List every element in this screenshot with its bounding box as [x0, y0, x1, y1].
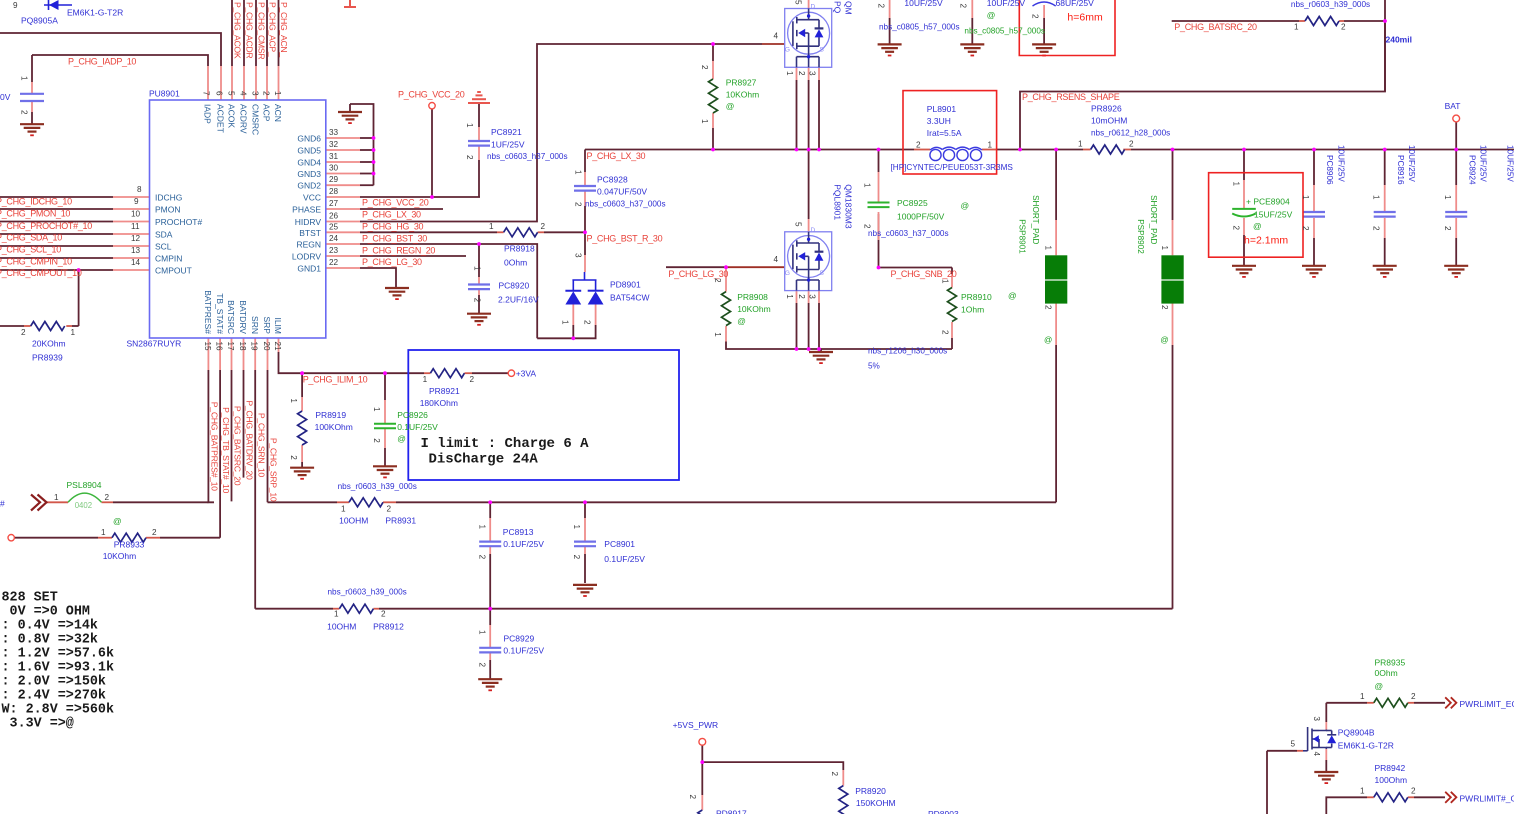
- svg-text:GND6: GND6: [297, 134, 321, 144]
- svg-text:P_CHG_RSENS_SHAPE: P_CHG_RSENS_SHAPE: [1022, 92, 1120, 102]
- svg-text:1: 1: [54, 493, 59, 502]
- svg-text:2: 2: [797, 294, 806, 299]
- svg-text:PC8926: PC8926: [397, 410, 428, 420]
- svg-text:S: S: [820, 47, 825, 54]
- svg-text:4: 4: [239, 91, 248, 96]
- svg-text:: 1.6V =>93.1k: : 1.6V =>93.1k: [2, 661, 115, 676]
- svg-text:16: 16: [215, 342, 224, 352]
- svg-text:P_CHG_LX_30: P_CHG_LX_30: [362, 209, 421, 219]
- svg-text:BATDRV: BATDRV: [238, 300, 248, 334]
- svg-text:15: 15: [203, 342, 212, 352]
- svg-text:1: 1: [1294, 23, 1299, 32]
- svg-text:33: 33: [329, 128, 339, 137]
- svg-text:0402: 0402: [75, 501, 92, 510]
- svg-text:2: 2: [477, 663, 486, 668]
- svg-text:1: 1: [560, 320, 569, 325]
- svg-text:PQL8901: PQL8901: [832, 184, 842, 220]
- svg-text:29: 29: [329, 175, 339, 184]
- svg-text:18: 18: [238, 342, 247, 352]
- svg-text:2: 2: [372, 438, 381, 443]
- svg-text:2: 2: [688, 795, 697, 800]
- svg-text:P_CHG_ACDR: P_CHG_ACDR: [245, 2, 255, 58]
- svg-text:QM: QM: [844, 1, 854, 15]
- svg-text:1: 1: [20, 76, 29, 81]
- svg-text:SRN: SRN: [250, 316, 260, 334]
- svg-text:IDCHG: IDCHG: [155, 193, 182, 203]
- svg-text:2: 2: [1372, 226, 1381, 231]
- svg-text:31: 31: [329, 152, 339, 161]
- svg-text:1: 1: [334, 610, 339, 619]
- svg-text:P_CHG_TB_STAT#_10: P_CHG_TB_STAT#_10: [221, 407, 231, 493]
- svg-text:1: 1: [1443, 195, 1452, 200]
- svg-text:2: 2: [1129, 140, 1134, 149]
- svg-text:1: 1: [1360, 787, 1365, 796]
- svg-text:Irat=5.5A: Irat=5.5A: [927, 128, 962, 138]
- svg-text:@: @: [397, 433, 406, 443]
- svg-text:100KOhm: 100KOhm: [315, 422, 353, 432]
- svg-text:1: 1: [341, 505, 346, 514]
- svg-text:10: 10: [131, 210, 141, 219]
- svg-text:0.047UF/50V: 0.047UF/50V: [597, 186, 647, 196]
- svg-text:1: 1: [941, 279, 950, 284]
- svg-text:BTST: BTST: [299, 228, 321, 238]
- svg-text:PL8901: PL8901: [927, 104, 957, 114]
- svg-text:SCL: SCL: [155, 242, 172, 252]
- svg-text:10UF/25V: 10UF/25V: [1336, 145, 1345, 182]
- svg-text:h=6mm: h=6mm: [1067, 12, 1103, 24]
- svg-text:P_CHG_LX_30: P_CHG_LX_30: [587, 151, 646, 161]
- svg-text:0Ohm: 0Ohm: [504, 258, 527, 268]
- svg-text:D: D: [811, 4, 816, 11]
- svg-text:1: 1: [988, 141, 993, 150]
- svg-text:2: 2: [465, 155, 474, 160]
- svg-text:PD8901: PD8901: [610, 280, 641, 290]
- svg-text:PC8906: PC8906: [1325, 155, 1334, 185]
- svg-text:[HP]CYNTEC/PEUE053T-3R3MS: [HP]CYNTEC/PEUE053T-3R3MS: [891, 163, 1014, 172]
- svg-text:P_CHG_CMPIN_10: P_CHG_CMPIN_10: [0, 256, 72, 266]
- svg-text:P_CHG_IADP_10: P_CHG_IADP_10: [68, 57, 136, 67]
- svg-text:1: 1: [700, 119, 709, 124]
- svg-text:240mil: 240mil: [1386, 35, 1412, 45]
- svg-text:4: 4: [1312, 752, 1321, 757]
- svg-text:13: 13: [131, 246, 141, 255]
- svg-text:PSP8901: PSP8901: [1018, 219, 1027, 254]
- svg-text:0.1UF/25V: 0.1UF/25V: [604, 554, 645, 564]
- svg-text:2: 2: [381, 610, 386, 619]
- svg-text:PQ8904B: PQ8904B: [1338, 728, 1375, 738]
- svg-text:22: 22: [329, 258, 339, 267]
- svg-text:PWRLIMIT_EC8: PWRLIMIT_EC8: [1460, 699, 1514, 709]
- svg-text:2: 2: [941, 330, 950, 335]
- svg-text:P_CHG_ACP_: P_CHG_ACP_: [268, 2, 278, 57]
- svg-text:PQ: PQ: [832, 1, 842, 14]
- svg-text:1: 1: [785, 71, 794, 76]
- svg-text:HIDRV: HIDRV: [295, 217, 322, 227]
- svg-text:1Ohm: 1Ohm: [961, 305, 984, 315]
- svg-text:10KOhm: 10KOhm: [103, 551, 137, 561]
- svg-text:GND5: GND5: [297, 146, 321, 156]
- svg-text:3.3V =>@: 3.3V =>@: [2, 717, 74, 732]
- svg-text:2: 2: [541, 222, 546, 231]
- svg-text:10OHM: 10OHM: [339, 515, 368, 525]
- svg-text:CMSRC: CMSRC: [251, 104, 261, 135]
- svg-text:nbs_c0603_h37_000s: nbs_c0603_h37_000s: [868, 229, 949, 238]
- svg-text:0Ohm: 0Ohm: [1375, 668, 1398, 678]
- svg-text:2: 2: [958, 4, 967, 9]
- svg-text:PSP8902: PSP8902: [1136, 219, 1145, 254]
- svg-text:IADP: IADP: [203, 104, 213, 124]
- svg-text:PQ8905A: PQ8905A: [21, 16, 58, 26]
- svg-text:10UF/25V: 10UF/25V: [1479, 145, 1488, 182]
- svg-text:P_CHG_BST_R_30: P_CHG_BST_R_30: [587, 234, 663, 244]
- svg-text:3: 3: [1312, 716, 1321, 721]
- svg-text:2: 2: [1044, 305, 1053, 310]
- svg-text:@: @: [726, 101, 735, 111]
- svg-text:GND3: GND3: [297, 169, 321, 179]
- svg-text:2: 2: [916, 141, 921, 150]
- svg-text:CMPOUT: CMPOUT: [155, 266, 192, 276]
- svg-text:1: 1: [477, 630, 486, 635]
- svg-text:0.1UF/25V: 0.1UF/25V: [503, 539, 544, 549]
- svg-text:12: 12: [131, 234, 141, 243]
- svg-text:3: 3: [574, 253, 583, 258]
- svg-text:5%: 5%: [868, 362, 880, 371]
- svg-text:EM6K1-G-T2R: EM6K1-G-T2R: [67, 8, 123, 18]
- svg-text:@: @: [113, 516, 122, 526]
- svg-text:: 0.8V =>32k: : 0.8V =>32k: [2, 632, 98, 647]
- svg-text:1: 1: [1078, 140, 1083, 149]
- svg-text:3: 3: [251, 91, 260, 96]
- svg-text:1: 1: [489, 222, 494, 231]
- svg-text:ACP: ACP: [262, 104, 272, 122]
- svg-text:3.3UH: 3.3UH: [927, 116, 951, 126]
- svg-text:+5VS_PWR: +5VS_PWR: [673, 720, 719, 730]
- svg-text:P_CHG_BST_30: P_CHG_BST_30: [362, 234, 427, 244]
- svg-text:2: 2: [876, 4, 885, 9]
- svg-text:P_CHG_BATDRV_20: P_CHG_BATDRV_20: [245, 400, 255, 480]
- svg-text:PC8916: PC8916: [1396, 155, 1405, 185]
- svg-text:nbs_r0603_h39_000s: nbs_r0603_h39_000s: [338, 482, 417, 491]
- svg-text:@: @: [737, 316, 746, 326]
- svg-text:PD8917: PD8917: [716, 809, 747, 814]
- svg-text:PR8910: PR8910: [961, 292, 992, 302]
- svg-text:SN2867RUYR: SN2867RUYR: [127, 339, 182, 349]
- svg-text:2: 2: [477, 555, 486, 560]
- svg-text:1: 1: [1160, 246, 1169, 251]
- svg-text:1: 1: [1044, 246, 1053, 251]
- svg-text:17: 17: [226, 342, 235, 352]
- svg-text:PMON: PMON: [155, 205, 181, 215]
- svg-text:nbs_c0603_h37_000s: nbs_c0603_h37_000s: [585, 200, 666, 209]
- svg-text:: 2.0V =>150k: : 2.0V =>150k: [2, 675, 106, 690]
- svg-text:PD8903: PD8903: [928, 809, 959, 814]
- svg-text:1: 1: [477, 525, 486, 530]
- svg-text:PC8929: PC8929: [504, 634, 535, 644]
- svg-text:W: 2.8V =>560k: W: 2.8V =>560k: [2, 703, 115, 718]
- svg-text:: 0.4V =>14k: : 0.4V =>14k: [2, 618, 98, 633]
- svg-text:PR8908: PR8908: [737, 292, 768, 302]
- svg-text:1: 1: [372, 407, 381, 412]
- svg-text:nbs_c0805_h57_000s: nbs_c0805_h57_000s: [879, 22, 960, 31]
- svg-text:0.1UF/25V: 0.1UF/25V: [503, 646, 544, 656]
- svg-text:10UF/25V: 10UF/25V: [987, 0, 1026, 8]
- svg-text:P_CHG_VCC_20: P_CHG_VCC_20: [362, 197, 429, 207]
- svg-text:0.1UF/25V: 0.1UF/25V: [397, 422, 438, 432]
- svg-text:P_CHG_SRN_10: P_CHG_SRN_10: [257, 413, 267, 477]
- svg-text:PC8928: PC8928: [597, 174, 628, 184]
- svg-text:0V =>0 OHM: 0V =>0 OHM: [2, 604, 90, 619]
- svg-text:2.2UF/16V: 2.2UF/16V: [498, 294, 539, 304]
- svg-text:4: 4: [774, 31, 779, 40]
- svg-text:BAT54CW: BAT54CW: [610, 293, 650, 303]
- svg-text:9: 9: [134, 197, 139, 206]
- svg-text:1: 1: [71, 328, 76, 337]
- svg-text:PR8921: PR8921: [429, 386, 460, 396]
- svg-text:8: 8: [137, 185, 142, 194]
- svg-text:11: 11: [131, 222, 140, 231]
- svg-text:DisCharge 24A: DisCharge 24A: [429, 452, 539, 468]
- svg-text:PU8901: PU8901: [149, 89, 180, 99]
- svg-text:1: 1: [1231, 182, 1240, 187]
- svg-text:P_CHG_BATPRES#_10: P_CHG_BATPRES#_10: [210, 402, 220, 491]
- svg-text:ACDRV: ACDRV: [239, 104, 249, 134]
- svg-text:PR8933: PR8933: [114, 540, 145, 550]
- svg-text:1: 1: [1360, 692, 1365, 701]
- svg-text:2: 2: [289, 455, 298, 460]
- svg-text:1: 1: [101, 528, 106, 537]
- svg-text:1: 1: [785, 294, 794, 299]
- svg-text:@: @: [1375, 681, 1384, 691]
- svg-text:P_CHG_SNB_20: P_CHG_SNB_20: [891, 269, 957, 279]
- svg-text:PROCHOT#: PROCHOT#: [155, 217, 203, 227]
- svg-text:180KOhm: 180KOhm: [420, 398, 458, 408]
- svg-text:5: 5: [794, 0, 803, 5]
- svg-text:21: 21: [273, 342, 282, 352]
- svg-text:P_CHG_BATSRC_20: P_CHG_BATSRC_20: [1174, 22, 1257, 32]
- svg-text:nbs_c0603_h37_000s: nbs_c0603_h37_000s: [487, 152, 568, 161]
- svg-text:20: 20: [262, 342, 271, 352]
- svg-text:1: 1: [423, 375, 428, 384]
- svg-text:10KOhm: 10KOhm: [737, 304, 771, 314]
- svg-text:10mOHM: 10mOHM: [1091, 116, 1127, 126]
- svg-text:0V: 0V: [0, 92, 11, 102]
- svg-text:2: 2: [863, 224, 872, 229]
- svg-text:9: 9: [13, 1, 18, 10]
- svg-text:P_CHG_LG_30: P_CHG_LG_30: [362, 257, 422, 267]
- svg-text:4: 4: [774, 255, 779, 264]
- svg-text:6: 6: [215, 91, 224, 96]
- svg-text:PR8926: PR8926: [1091, 104, 1122, 114]
- svg-text:PR8942: PR8942: [1375, 763, 1406, 773]
- svg-text:VCC: VCC: [303, 193, 321, 203]
- svg-text:P_CHG_PMON_10: P_CHG_PMON_10: [0, 209, 70, 219]
- svg-text:nbs_c0805_h57_000s: nbs_c0805_h57_000s: [964, 26, 1045, 35]
- svg-text:15UF/25V: 15UF/25V: [1254, 209, 1293, 219]
- svg-text:@: @: [961, 201, 970, 211]
- svg-text:h=2.1mm: h=2.1mm: [1244, 234, 1288, 246]
- svg-text:5: 5: [1291, 740, 1296, 749]
- svg-text:GND1: GND1: [297, 264, 321, 274]
- svg-text:1: 1: [473, 266, 482, 271]
- svg-text:30: 30: [329, 164, 339, 173]
- svg-text:SHORT_PAD: SHORT_PAD: [1149, 195, 1158, 244]
- svg-text:ACOK: ACOK: [227, 104, 237, 128]
- svg-text:PR8912: PR8912: [373, 621, 404, 631]
- svg-text:P_CHG_BATSRC_20: P_CHG_BATSRC_20: [233, 406, 243, 486]
- svg-text:1: 1: [574, 170, 583, 175]
- svg-text:P_CHG_ILIM_10: P_CHG_ILIM_10: [303, 374, 368, 384]
- svg-text:+3VA: +3VA: [516, 369, 537, 379]
- svg-text:P_CHG_SDA_10: P_CHG_SDA_10: [0, 233, 62, 243]
- svg-text:3: 3: [808, 71, 817, 76]
- svg-text:2: 2: [713, 278, 722, 283]
- svg-text:@: @: [1253, 221, 1262, 231]
- svg-text:2: 2: [21, 328, 26, 337]
- svg-text:@: @: [1044, 336, 1052, 345]
- svg-text:PR8927: PR8927: [726, 77, 757, 87]
- svg-text:nbs_r0612_h28_000s: nbs_r0612_h28_000s: [1091, 129, 1170, 138]
- svg-text:2: 2: [797, 71, 806, 76]
- svg-text:2: 2: [830, 772, 839, 777]
- svg-text:@: @: [987, 10, 996, 20]
- svg-text:ILIM: ILIM: [273, 317, 283, 334]
- svg-text:I limit : Charge 6 A: I limit : Charge 6 A: [421, 436, 590, 452]
- svg-text:1: 1: [713, 332, 722, 337]
- svg-text:24: 24: [329, 234, 339, 243]
- svg-text:PR8931: PR8931: [385, 515, 416, 525]
- svg-text:28: 28: [329, 187, 339, 196]
- svg-text:SRP: SRP: [262, 317, 272, 335]
- svg-text:2: 2: [470, 375, 475, 384]
- svg-text:P_CHG_IDCHG_10: P_CHG_IDCHG_10: [0, 197, 72, 207]
- svg-text:PR8939: PR8939: [32, 353, 63, 363]
- svg-text:3: 3: [808, 294, 817, 299]
- svg-text:1: 1: [289, 398, 298, 403]
- svg-text:P_CHG_VCC_20: P_CHG_VCC_20: [398, 90, 465, 100]
- svg-text:19: 19: [250, 342, 259, 352]
- svg-text:2: 2: [387, 505, 392, 514]
- svg-text:#: #: [0, 499, 5, 509]
- svg-text:10UF/25V: 10UF/25V: [904, 0, 943, 8]
- svg-text:100Ohm: 100Ohm: [1375, 775, 1408, 785]
- svg-text:10OHM: 10OHM: [327, 621, 356, 631]
- svg-text:7: 7: [202, 91, 211, 96]
- svg-text:: 2.4V =>270k: : 2.4V =>270k: [2, 689, 106, 704]
- svg-text:1: 1: [863, 183, 872, 188]
- svg-text:PC8921: PC8921: [491, 127, 522, 137]
- svg-text:@: @: [1008, 291, 1017, 301]
- svg-text:P_CHG_CMSR: P_CHG_CMSR: [257, 2, 267, 59]
- svg-text:1UF/25V: 1UF/25V: [491, 139, 525, 149]
- svg-text:REGN: REGN: [296, 240, 321, 250]
- svg-text:5: 5: [227, 91, 236, 96]
- svg-text:P_CHG_REGN_20: P_CHG_REGN_20: [362, 246, 435, 256]
- svg-text:1: 1: [572, 525, 581, 530]
- svg-text:ACN: ACN: [273, 104, 283, 122]
- svg-text:2: 2: [20, 110, 29, 115]
- svg-text:BATSRC: BATSRC: [226, 300, 236, 334]
- svg-text:EM6K1-G-T2R: EM6K1-G-T2R: [1338, 740, 1394, 750]
- svg-text:2: 2: [572, 555, 581, 560]
- svg-text:BATPRES#: BATPRES#: [203, 290, 213, 334]
- svg-text:2: 2: [574, 202, 583, 207]
- svg-text:2: 2: [152, 528, 157, 537]
- svg-text:P_CHG_HG_30: P_CHG_HG_30: [362, 222, 424, 232]
- svg-text:2: 2: [105, 493, 110, 502]
- svg-text:2: 2: [1231, 226, 1240, 231]
- svg-text:BAT: BAT: [1445, 101, 1461, 111]
- svg-text:14: 14: [131, 258, 141, 267]
- svg-text:1: 1: [465, 123, 474, 128]
- svg-text:P_CHG_PROCHOT#_10: P_CHG_PROCHOT#_10: [0, 221, 92, 231]
- svg-text:32: 32: [329, 140, 339, 149]
- svg-text:PSL8904: PSL8904: [67, 480, 102, 490]
- svg-text:GND4: GND4: [297, 158, 321, 168]
- svg-text:P_CHG_ACOK: P_CHG_ACOK: [233, 2, 243, 59]
- svg-text:ACDET: ACDET: [216, 104, 226, 133]
- svg-text:68UF/25V: 68UF/25V: [1056, 0, 1095, 8]
- svg-text:10UF/25V: 10UF/25V: [1506, 145, 1514, 182]
- svg-text:GND2: GND2: [297, 181, 321, 191]
- svg-text:20KOhm: 20KOhm: [32, 339, 66, 349]
- svg-text:2: 2: [262, 91, 271, 96]
- svg-text:PC8924: PC8924: [1467, 155, 1476, 185]
- svg-text:150KOHM: 150KOHM: [856, 798, 896, 808]
- svg-text:2: 2: [1341, 23, 1346, 32]
- svg-text:PC8925: PC8925: [897, 198, 928, 208]
- svg-text:TB_STAT#: TB_STAT#: [215, 293, 225, 334]
- svg-text:SHORT_PAD: SHORT_PAD: [1031, 195, 1040, 244]
- svg-text:2: 2: [1160, 305, 1169, 310]
- svg-text:1: 1: [1372, 195, 1381, 200]
- svg-text:828 SET: 828 SET: [2, 590, 58, 605]
- svg-text:10KOhm: 10KOhm: [726, 89, 760, 99]
- svg-text:25: 25: [329, 223, 339, 232]
- svg-text:1000PF/50V: 1000PF/50V: [897, 212, 945, 222]
- svg-text:: 1.2V =>57.6k: : 1.2V =>57.6k: [2, 646, 115, 661]
- svg-text:2: 2: [1301, 226, 1310, 231]
- svg-text:2: 2: [1443, 226, 1452, 231]
- svg-text:+ PCE8904: + PCE8904: [1246, 197, 1290, 207]
- svg-text:27: 27: [329, 199, 339, 208]
- svg-text:P_CHG_SCL_10: P_CHG_SCL_10: [0, 245, 61, 255]
- svg-text:nbs_r0603_h39_000s: nbs_r0603_h39_000s: [1291, 0, 1370, 9]
- svg-text:2: 2: [583, 320, 592, 325]
- svg-text:2: 2: [1411, 692, 1416, 701]
- svg-text:PR8935: PR8935: [1375, 658, 1406, 668]
- svg-text:2: 2: [700, 65, 709, 70]
- svg-text:PHASE: PHASE: [292, 205, 321, 215]
- svg-text:PWRLIMIT#_C8: PWRLIMIT#_C8: [1460, 794, 1514, 804]
- svg-text:QM1830M3: QM1830M3: [844, 184, 854, 229]
- svg-text:P_CHG_SRP_10: P_CHG_SRP_10: [269, 438, 279, 502]
- svg-text:nbs_r0603_h39_000s: nbs_r0603_h39_000s: [328, 588, 407, 597]
- svg-text:nbs_r1206_h30_000s: nbs_r1206_h30_000s: [868, 347, 947, 356]
- svg-text:P_CHG_CMPOUT_10: P_CHG_CMPOUT_10: [0, 268, 82, 278]
- svg-text:2: 2: [473, 298, 482, 303]
- svg-text:PR8919: PR8919: [315, 410, 346, 420]
- svg-text:LODRV: LODRV: [292, 252, 321, 262]
- svg-text:23: 23: [329, 246, 339, 255]
- svg-text:PR8918: PR8918: [504, 244, 535, 254]
- svg-text:CMPIN: CMPIN: [155, 254, 182, 264]
- svg-text:PC8920: PC8920: [499, 280, 530, 290]
- svg-text:26: 26: [329, 212, 339, 221]
- svg-text:5: 5: [794, 222, 803, 227]
- svg-text:1: 1: [1301, 195, 1310, 200]
- svg-text:G: G: [785, 47, 790, 54]
- svg-text:10UF/25V: 10UF/25V: [1407, 145, 1416, 182]
